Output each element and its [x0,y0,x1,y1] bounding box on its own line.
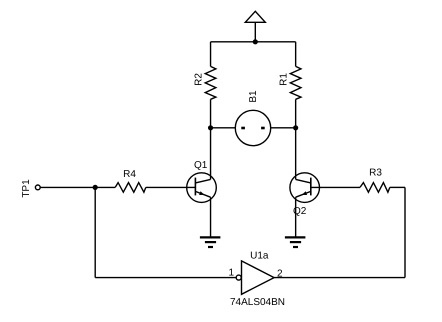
wire R2 top [210,42,212,67]
ground below Q1 [200,237,221,247]
svg-text:B1: B1 [248,90,259,103]
op-amp U1a inverter [229,251,286,308]
transistor Q2 [290,173,320,217]
node TP1 branch [93,185,98,190]
svg-text:R3: R3 [369,168,382,179]
wire TP1 to junction [40,186,115,188]
wire Q2 emitter [295,197,297,237]
ground below Q2 [285,237,306,247]
node top junction [253,39,258,44]
wire top rail [211,41,296,43]
svg-text:U1a: U1a [250,251,269,262]
svg-text:Q1: Q1 [194,160,208,171]
wire bottom to inverter input [95,277,236,279]
resistor R3 [360,168,390,193]
svg-text:2: 2 [277,268,283,279]
wire B1 left [211,127,236,129]
wire R1 top [295,42,297,67]
node left of B1 [208,125,213,130]
terminal TP1 [21,179,40,198]
wire Q1 emitter [210,197,212,237]
wire R3 to right rail [390,186,405,188]
wire Q2 collector [295,128,297,180]
wire TP1 branch down [94,187,96,277]
wire B1 right [271,127,296,129]
transistor Q1 [187,160,217,202]
wire bottom from inverter output [274,277,405,279]
wire R4 to Q1 base [146,186,196,188]
wire Q2 base to R3 [311,186,360,188]
wire R1 bottom [295,99,297,128]
node right of B1 [293,125,298,130]
wire right rail down [404,187,406,277]
wire Q1 collector [210,128,212,180]
svg-text:1: 1 [229,267,235,278]
svg-text:R2: R2 [194,73,205,86]
svg-text:TP1: TP1 [21,179,32,198]
resistor R2 [194,66,216,99]
wire R2 bottom [210,99,212,128]
power symbol VCC [245,11,265,42]
resistor R1 [279,66,301,99]
svg-text:R4: R4 [123,169,136,180]
lamp B1 [235,90,270,146]
svg-text:74ALS04BN: 74ALS04BN [230,297,285,308]
resistor R4 [115,169,146,192]
svg-text:R1: R1 [279,73,290,86]
